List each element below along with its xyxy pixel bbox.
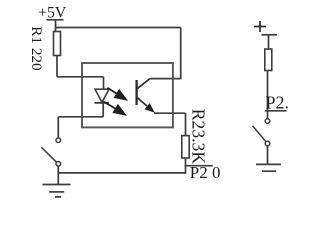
svg-text:P2 0: P2 0 <box>190 163 221 182</box>
svg-text:+5V: +5V <box>38 5 67 22</box>
svg-text:R1 220: R1 220 <box>28 26 45 71</box>
svg-text:P2.: P2. <box>266 93 290 113</box>
svg-text:R23.3K: R23.3K <box>188 109 208 165</box>
